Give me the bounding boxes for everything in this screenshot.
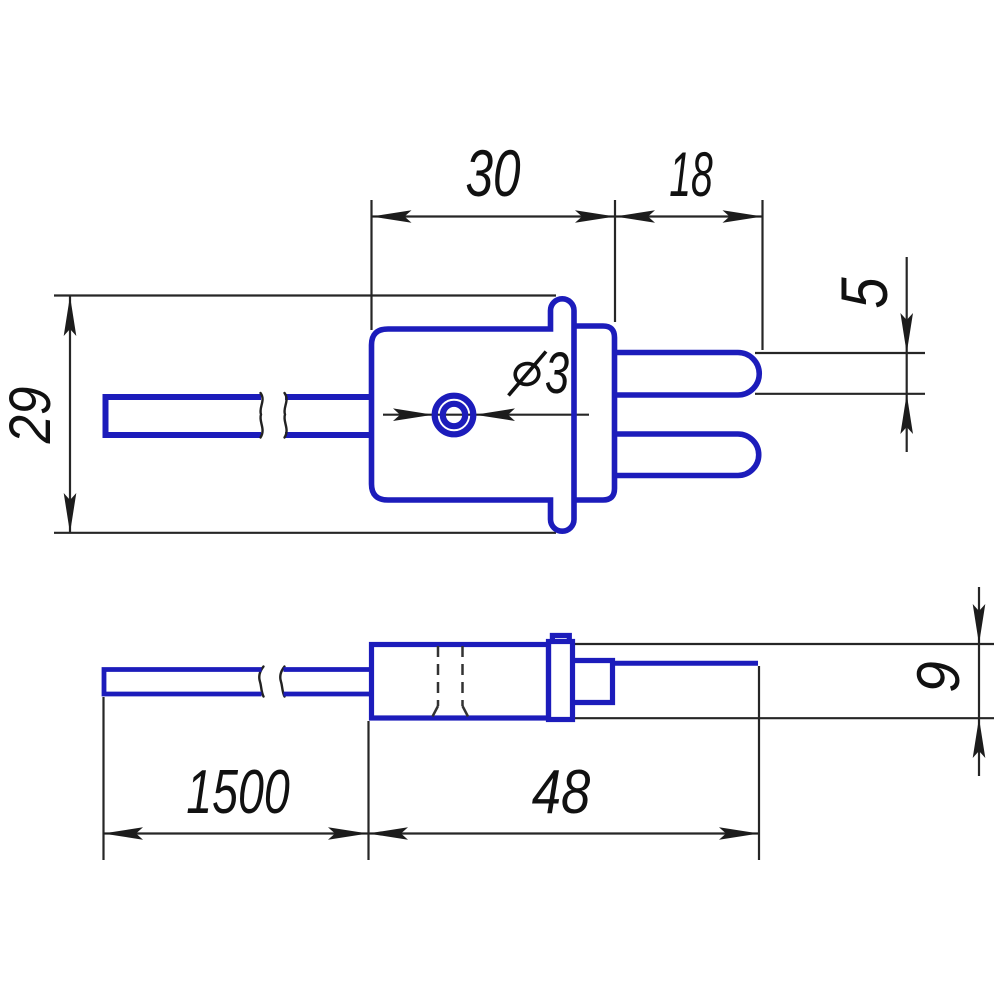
ext line 48 right (758, 666, 760, 860)
ext line 30 left (370, 200, 372, 330)
break line 3 (bottom view) (259, 667, 263, 697)
dim line 1500/48 (103, 832, 759, 834)
break line 2 (284, 393, 286, 438)
ext line 29 top (54, 294, 556, 296)
ext line 9 top (573, 643, 994, 645)
hole outer circle (435, 396, 474, 435)
cable break squiggles top view (259, 393, 286, 697)
ext line 29 bottom (54, 532, 556, 534)
arrow dia3 left (393, 408, 433, 421)
ext line 1500 left (102, 697, 104, 860)
arrow 5 bottom (900, 394, 913, 434)
cable segment 2 (285, 397, 372, 435)
arrowheads (64, 210, 986, 840)
arrow 29 top (64, 296, 77, 336)
dim line 5 (906, 257, 908, 452)
arrow 18 right (723, 210, 763, 223)
arrow 1500 left (103, 827, 143, 840)
rear body (575, 326, 615, 500)
svg-text:9: 9 (906, 661, 973, 693)
arrow 29 bottom (64, 493, 77, 533)
key bump (552, 636, 569, 643)
dim line 9 (978, 587, 980, 776)
svg-text:5: 5 (828, 277, 901, 309)
flange side rect (549, 642, 573, 720)
dashed hidden line right (461, 646, 464, 706)
connector step (573, 661, 613, 703)
dashed hidden line left (437, 646, 440, 706)
hidden hole dashed lines (433, 646, 469, 717)
cable side segment 2 (284, 670, 373, 695)
svg-text:1500: 1500 (186, 756, 290, 826)
ext line 5 top (755, 352, 925, 354)
svg-text:3: 3 (545, 341, 570, 405)
cable side segment 1 (104, 670, 262, 695)
dim line 29 (69, 296, 71, 533)
body side rect (372, 645, 549, 719)
ext line 9 bottom (575, 717, 994, 719)
break line 1 (260, 393, 262, 438)
ext line 18 right (761, 200, 763, 350)
arrow 48 right (719, 827, 759, 840)
flare right (463, 706, 469, 717)
arrow 1500 right (328, 827, 368, 840)
label dia 3 (509, 352, 547, 396)
arrow 5 top (900, 313, 913, 353)
ext line 1500/48 middle (367, 721, 369, 860)
svg-text:29: 29 (0, 387, 63, 445)
svg-text:18: 18 (669, 141, 712, 211)
arrow 9 bottom (973, 718, 986, 758)
ext line 30/18 middle (614, 200, 616, 322)
pin 1 (615, 353, 760, 396)
dimension texts (0, 137, 972, 827)
pin 2 (615, 434, 759, 476)
arrow 30 left (372, 210, 412, 223)
ext line 5 bottom (755, 393, 925, 395)
pin side line (613, 661, 759, 666)
cable segment 1 (106, 397, 262, 435)
flare left (433, 706, 439, 717)
svg-text:30: 30 (465, 137, 520, 211)
hole inner circle (443, 404, 465, 426)
arrow 9 top (973, 604, 986, 644)
arrow dia3 right (475, 408, 515, 421)
svg-text:48: 48 (532, 758, 591, 827)
arrow 18 left (615, 210, 655, 223)
dim line 30/18 (372, 215, 763, 217)
break line 4 (bottom view) (280, 667, 284, 697)
hole centerline (383, 414, 589, 416)
arrow 48 left (368, 827, 408, 840)
arrow 30 right (575, 210, 615, 223)
plug body with flange bulge (372, 299, 575, 531)
